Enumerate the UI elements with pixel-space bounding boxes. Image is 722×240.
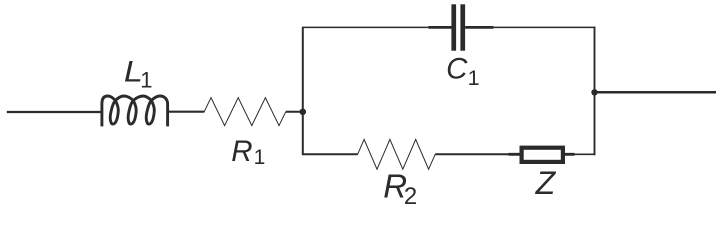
wire Z to right vertical (thin) (575, 153, 596, 155)
wire bottom branch left (302, 153, 358, 155)
wire top branch left (thin) (302, 26, 429, 28)
right vertical wire (branch merge) (594, 27, 596, 156)
svg-text:1: 1 (254, 146, 266, 169)
svg-text:1: 1 (140, 67, 152, 92)
node junction dot left (300, 109, 307, 116)
svg-text:Z: Z (535, 165, 557, 201)
resistor R1 zigzag (204, 98, 286, 126)
wire output lead right (595, 91, 717, 94)
wire top branch right (thin) (494, 26, 596, 28)
wire capacitor right stub (thick) (465, 26, 494, 29)
wire inductor to R1 (168, 111, 205, 113)
capacitor C1 right plate (460, 4, 465, 50)
wire R2 to Z (435, 153, 508, 155)
wire R1 to left junction (286, 111, 303, 113)
impedance Z box (522, 148, 563, 162)
svg-text:R: R (231, 135, 252, 168)
resistor R2 zigzag (358, 139, 436, 169)
inductor L1 coil (102, 96, 168, 126)
wire input lead left (7, 111, 102, 113)
node junction dot right (591, 89, 597, 95)
wire Z left stub (thick) (509, 153, 522, 156)
left vertical wire (branch split) (302, 27, 304, 154)
wire Z to right vertical (565, 153, 575, 156)
capacitor C1 left plate (451, 4, 456, 50)
svg-text:1: 1 (468, 66, 480, 90)
svg-text:2: 2 (404, 183, 417, 207)
wire capacitor left stub (thick) (429, 26, 452, 29)
svg-text:C: C (446, 52, 468, 85)
